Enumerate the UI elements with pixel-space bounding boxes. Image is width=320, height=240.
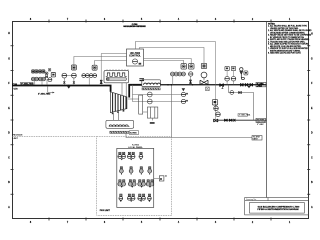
signal riser from control box top: [136, 42, 216, 50]
signal riser right x215.5: [215, 42, 217, 121]
instrument grid row 3: [118, 180, 154, 186]
svg-text:-7802: -7802: [257, 86, 263, 88]
signal line y94.1: [133, 85, 182, 95]
discharge pipe riser: [129, 85, 142, 98]
svg-text:PACKAGE: PACKAGE: [13, 134, 24, 137]
valve on vent branch: [239, 91, 242, 93]
tag+bubble pair at 227: [225, 66, 229, 70]
small tag box right below valve: [206, 87, 210, 91]
signal line from tag x73.9 to control box: [74, 57, 127, 66]
compressor feet: [112, 110, 124, 114]
svg-text:2"-GBC: 2"-GBC: [257, 124, 264, 126]
tag above x73.9: [71, 65, 76, 70]
svg-text:GAS BALANCING COMPRESSOR C-780: GAS BALANCING COMPRESSOR C-7800: [258, 206, 301, 209]
drain arrow below valve cluster: [248, 86, 251, 88]
instrument bubble 2 below cooler: [147, 99, 152, 104]
svg-text:CONTROL: CONTROL: [129, 55, 141, 58]
blowdown line from intercooler: [126, 133, 252, 137]
bubble on vent branch: [230, 91, 234, 95]
instrument bubble below cooler: [147, 92, 152, 97]
tag above x94.6: [92, 65, 97, 70]
junction node on discharge pipe at x168: [167, 84, 169, 86]
tag+bubble pair at 233.5: [231, 66, 235, 70]
svg-text:VENT: VENT: [253, 139, 259, 141]
instrument stem marks in grid: [120, 158, 152, 202]
four instrument bubbles row discharge: [171, 72, 186, 76]
drum tube bundle capsule: [106, 77, 126, 80]
bubble on riser 1: [214, 106, 219, 111]
tag above 183.7: [181, 64, 187, 70]
valve cluster on lower pipe: [225, 119, 236, 122]
suction drum (pulsation bottle): [104, 70, 129, 82]
stem w valve at 190.5: [190, 76, 192, 85]
drawing frame border: [13, 22, 309, 219]
signal line box right y58.5: [144, 59, 192, 64]
intercooler label box: [130, 131, 139, 135]
aftercooler E-7800: [142, 80, 161, 87]
package limit line to left border: [12, 135, 97, 137]
valve on stem: [46, 75, 48, 77]
svg-text:8"-GBC-7801: 8"-GBC-7801: [21, 84, 34, 86]
svg-text:E-7801: E-7801: [130, 133, 137, 135]
flow arrow on discharge pipe: [182, 88, 186, 91]
junction node on discharge pipe at x192.5: [192, 84, 194, 86]
drain tick below pipe at 222: [221, 86, 223, 89]
connector between bubbles: [67, 75, 72, 77]
svg-text:PKG LIMIT: PKG LIMIT: [100, 210, 111, 212]
drum top fin ticks: [107, 69, 128, 70]
single bubble at 190.7: [189, 72, 193, 76]
signal line box right y47.4: [140, 48, 205, 64]
svg-text:V-78: V-78: [14, 88, 18, 90]
instrument grid box: [117, 148, 154, 207]
bubble at x49.9 lower: [48, 78, 52, 82]
end label box main discharge: [256, 82, 266, 86]
stems from bubbles to pipe: [34, 81, 36, 85]
border row letters right: [311, 34, 313, 209]
small tag above: [48, 69, 50, 71]
fitting marks on pipe x218-222: [220, 84, 224, 87]
control box UC-7800: [127, 49, 144, 66]
tag square at x53.4: [51, 73, 55, 77]
bubble end y101.5: [181, 99, 185, 103]
vertical separator pot: [139, 95, 143, 114]
four instrument bubbles row center-left: [82, 74, 97, 78]
bubble end y94: [181, 92, 185, 96]
tag at 245.7: [244, 71, 248, 75]
border row letters left: [8, 33, 10, 209]
valve cluster on discharge pipe right: [241, 83, 253, 86]
drain branch with arrow below pipe: [48, 86, 53, 93]
stem from bubble row to pipe: [88, 78, 90, 86]
svg-text:4"-GBC-7803: 4"-GBC-7803: [38, 93, 51, 96]
lower pipe y120.2: [215, 119, 266, 121]
stem from row to pipe: [172, 76, 174, 85]
label above lower pipe: [238, 114, 248, 117]
compressor panel title: [128, 145, 143, 150]
aftercooler hatched strip: [142, 88, 160, 90]
instrument tag squares row (left cluster): [32, 70, 45, 73]
svg-text:2"-GBC-7804: 2"-GBC-7804: [239, 113, 252, 116]
intercooler vessel: [106, 120, 134, 128]
flow arrow on main pipe: [67, 86, 71, 88]
svg-text:PIPING & INSTRUMENTATION DIAGR: PIPING & INSTRUMENTATION DIAGRAM: [257, 208, 298, 211]
svg-text:G: G: [311, 58, 313, 60]
lube oil cooler box: [147, 107, 157, 118]
compressor to intercooler drops: [112, 113, 114, 120]
svg-text:C-7800: C-7800: [132, 24, 138, 26]
stem w/ valve: [63, 78, 65, 85]
riser with valve at x101.2: [100, 54, 102, 86]
notes block text: [268, 23, 312, 54]
main suction pipe: [12, 86, 111, 92]
signal line y101.3: [133, 95, 182, 102]
end label blowdown: [252, 136, 262, 140]
tag above 191.2: [189, 64, 195, 70]
border column numbers bottom: [30, 221, 291, 224]
instrument bubbles row (left cluster): [31, 77, 45, 81]
discharge pipe after cooler: [161, 84, 267, 86]
svg-text:Drawing No.: Drawing No.: [246, 198, 257, 201]
notes block separator line: [266, 22, 268, 198]
relief valve assembly: [240, 68, 245, 80]
svg-text:G: G: [8, 58, 10, 60]
compressor K-7800: [110, 92, 127, 113]
tag on riser: [212, 100, 217, 105]
border ruler tick marks: [11, 20, 311, 221]
junction node on main pipe at x68.7: [68, 85, 70, 87]
tag above 204: [201, 63, 206, 68]
intercooler hatched strip: [110, 131, 129, 133]
signal line box right y60.5: [144, 61, 184, 64]
small bubble at x46.6: [45, 72, 48, 75]
drum to compressor stubs: [121, 83, 123, 96]
vent branch from pipe: [229, 85, 254, 120]
drawing title C-7800: [123, 24, 145, 28]
motor tag right of grid box: [154, 177, 160, 179]
line number label box: [21, 82, 34, 85]
title block: [245, 198, 309, 215]
svg-text:8. SEE DWG 123-PID-002 FOR CON: 8. SEE DWG 123-PID-002 FOR CONT.: [268, 53, 302, 55]
instrument grid row 1: [118, 152, 143, 158]
instrument grid row 2: [120, 167, 152, 173]
branch pipe from discharge into package: [170, 85, 172, 137]
drum castellated internals: [106, 73, 127, 76]
junction node on discharge pipe at x171.4: [171, 84, 173, 86]
instrument bubble PI at 73.9: [72, 73, 77, 78]
svg-text:8"GB: 8"GB: [12, 84, 17, 86]
spec break label left of aftercooler: [139, 78, 144, 79]
control valve with actuator: [201, 72, 207, 78]
end label lower pipe: [256, 118, 266, 122]
package boundary box: [97, 137, 172, 216]
junction valve cluster at riser bottom: [214, 119, 218, 122]
border column numbers top: [30, 18, 291, 21]
svg-text:LIMIT: LIMIT: [13, 138, 19, 140]
instrument grid row 4: [119, 194, 151, 200]
bubble on riser 2: [216, 112, 221, 117]
signal line from tag x94.6 to control box: [95, 61, 127, 66]
instrument bubble PI at 64.3: [62, 73, 67, 78]
